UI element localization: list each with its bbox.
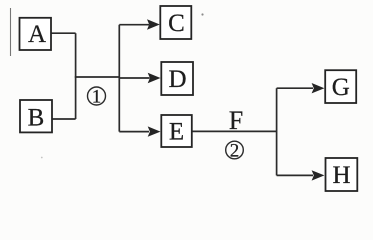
svg-text:2: 2	[230, 140, 240, 161]
wire to G	[277, 87, 313, 89]
wire vertical bus 2	[118, 25, 120, 132]
box G	[325, 70, 356, 103]
svg-text:E: E	[169, 119, 184, 146]
svg-text:G: G	[332, 74, 350, 101]
svg-text:1: 1	[92, 86, 102, 107]
svg-text:B: B	[28, 104, 45, 131]
arrowhead to D	[148, 73, 161, 83]
svg-text:A: A	[28, 21, 46, 48]
label 1 (circled) on junction wire	[88, 86, 106, 107]
wire to H	[277, 174, 313, 176]
wire vertical bus 1	[75, 33, 77, 119]
wire junction to splitter	[75, 76, 120, 78]
wire vertical bus 3	[276, 88, 278, 175]
svg-text:D: D	[168, 66, 186, 93]
wire A to junction	[51, 32, 76, 34]
wire to C	[119, 24, 149, 26]
box C	[160, 6, 191, 39]
box H	[326, 158, 358, 191]
arrowhead to C	[147, 19, 160, 29]
wire to E	[119, 131, 149, 133]
arrowhead to H	[312, 170, 325, 180]
wire B to junction	[52, 118, 76, 120]
label 2 (circled) under wire F	[226, 140, 244, 161]
box D	[161, 62, 193, 95]
svg-text:H: H	[332, 162, 350, 189]
arrowhead to E	[148, 126, 161, 136]
svg-text:F: F	[229, 106, 243, 135]
box E	[161, 115, 192, 147]
svg-text:C: C	[168, 10, 185, 37]
box A	[20, 18, 52, 50]
arrowhead to G	[312, 83, 325, 93]
wire to D	[119, 77, 149, 79]
wire E to splitter 2	[193, 130, 277, 132]
box B	[20, 100, 52, 132]
